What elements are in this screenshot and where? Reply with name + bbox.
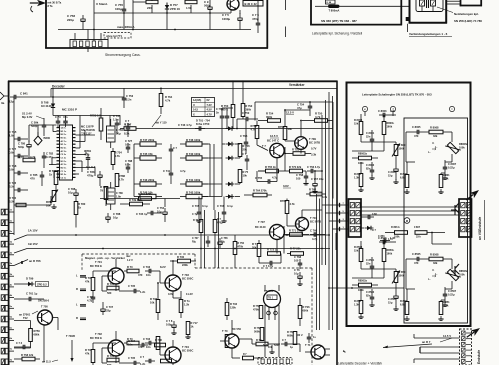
resistor R703 bottom	[225, 334, 237, 348]
svg-text:Leiterplatte kpl. Sicherung: Leiterplatte kpl. Sicherung / Netzteil	[312, 32, 362, 36]
svg-text:C 705: C 705	[128, 284, 136, 288]
resistor R8502a 100k	[352, 279, 378, 293]
svg-text:BC 167B: BC 167B	[309, 140, 320, 144]
svg-text:4.5V: 4.5V	[207, 108, 213, 112]
svg-text:14.5 V: 14.5 V	[443, 334, 451, 338]
mains plug box corner	[447, 0, 482, 6]
svg-text:4.7k: 4.7k	[119, 177, 125, 181]
svg-text:47μ: 47μ	[297, 106, 302, 110]
svg-text:U.: U.	[432, 143, 435, 145]
svg-text:R 772 1k: R 772 1k	[267, 248, 278, 252]
svg-text:R 8503: R 8503	[354, 245, 363, 249]
svg-text:33μ: 33μ	[106, 308, 111, 312]
amp stage2 wires	[259, 210, 322, 263]
label MC1307P SN76115N	[81, 125, 95, 136]
svg-text:MC 1307P: MC 1307P	[81, 125, 94, 129]
resistor R7012 vert	[85, 276, 95, 291]
svg-text:1k: 1k	[78, 205, 82, 209]
svg-text:R 706: R 706	[150, 297, 158, 301]
svg-text:M3 2s: M3 2s	[61, 138, 68, 140]
svg-text:C 703: C 703	[143, 265, 151, 269]
capacitor C743 series	[178, 123, 205, 131]
labels 560k 530k	[263, 343, 280, 347]
svg-text:C 780: C 780	[18, 142, 26, 146]
svg-text:C 788: C 788	[68, 187, 76, 191]
capacitor C8003 1.3n	[378, 109, 396, 117]
svg-text:1.8n: 1.8n	[116, 194, 122, 198]
svg-text:S1 2.4V: S1 2.4V	[22, 112, 32, 116]
resistor R716 stage wires	[160, 340, 173, 365]
svg-text:15k: 15k	[354, 121, 359, 125]
resistor R700e edge	[9, 196, 26, 207]
svg-text:6.8n: 6.8n	[9, 167, 15, 171]
label max 280mA	[117, 25, 135, 29]
svg-text:SN 258-0: SN 258-0	[38, 299, 50, 303]
diode D707	[226, 156, 241, 160]
svg-text:ohne lpl 771: ohne lpl 771	[106, 34, 122, 38]
svg-text:10k: 10k	[243, 173, 248, 177]
resistor R706 10k	[150, 297, 160, 313]
transistor T705 bottom mid	[222, 327, 241, 348]
label Endstufe vertical	[477, 350, 481, 364]
capacitor C761 1u	[14, 292, 44, 302]
svg-text:500p: 500p	[18, 145, 24, 149]
transistor T704 BC550C	[165, 345, 193, 363]
output transistor lower	[451, 264, 459, 276]
svg-text:C 780: C 780	[116, 191, 123, 195]
svg-text:1.7n: 1.7n	[388, 238, 393, 241]
svg-text:R: R	[76, 287, 78, 291]
svg-text:T 701: T 701	[95, 260, 102, 264]
svg-text:D 7: D 7	[372, 229, 376, 232]
svg-text:BC 550C: BC 550C	[182, 276, 193, 280]
resistor R in power box 220	[133, 0, 158, 30]
svg-text:C 758: C 758	[296, 173, 304, 177]
label 14.5V bottom	[440, 334, 452, 342]
svg-text:C 753: C 753	[126, 94, 134, 98]
svg-text:220μ: 220μ	[67, 18, 74, 22]
bottom right connector strip	[460, 329, 472, 365]
resistor R807 33k	[414, 226, 452, 244]
resistor R8002i 6.8k	[400, 162, 410, 193]
svg-text:680k: 680k	[34, 332, 40, 336]
svg-text:R 756: R 756	[287, 330, 294, 334]
resistor R7015 560	[107, 282, 119, 295]
wire hook at power box input	[31, 6, 33, 12]
arrow an VS-Endstufe	[464, 187, 481, 202]
svg-text:R 8008: R 8008	[430, 126, 439, 130]
label Leiterplatte Schaltregler	[362, 93, 432, 97]
resistor R771 10k	[289, 229, 309, 237]
label AN 066 TN 083-087	[321, 19, 357, 23]
resistor R 740	[180, 152, 208, 160]
svg-text:R 747 220k: R 747 220k	[140, 138, 155, 142]
svg-text:R 700: R 700	[9, 196, 17, 200]
capacitor C731 C732 pair	[216, 107, 233, 129]
svg-text:L 750: L 750	[116, 128, 123, 132]
capacitor C737 1.5n	[113, 114, 121, 134]
resistor R784 4.7k	[111, 148, 122, 170]
capacitor C785 470	[30, 171, 44, 186]
svg-text:100k: 100k	[399, 146, 405, 150]
svg-text:160k: 160k	[387, 124, 393, 128]
resistor R755 1k	[258, 165, 283, 173]
svg-text:M1 1s: M1 1s	[61, 131, 68, 133]
svg-text:C 727: C 727	[125, 139, 133, 143]
svg-text:R 754: R 754	[266, 112, 274, 116]
capacitor C756 4.7u	[307, 165, 323, 173]
svg-text:4.7k: 4.7k	[165, 98, 171, 102]
svg-text:T 700: T 700	[41, 305, 48, 309]
svg-text:C 7: C 7	[125, 119, 130, 123]
svg-text:R 764: R 764	[165, 95, 173, 99]
svg-text:8.2k: 8.2k	[9, 199, 15, 203]
capacitor L731 decoder	[63, 115, 68, 127]
resistor R 742	[180, 190, 208, 198]
svg-text:C 743 4.7μ: C 743 4.7μ	[178, 123, 192, 127]
svg-text:8.2V: 8.2V	[160, 265, 166, 269]
svg-text:R 755 1k: R 755 1k	[265, 165, 276, 169]
svg-text:T 70: T 70	[222, 329, 228, 333]
svg-text:C 7: C 7	[140, 355, 145, 359]
capacitor C8507 0.22u	[443, 287, 457, 300]
svg-text:R 764 270k: R 764 270k	[138, 192, 152, 196]
svg-text:T 800mA: T 800mA	[329, 8, 340, 12]
svg-text:4.7μ: 4.7μ	[312, 237, 318, 241]
resistor R8502i 6.8k	[400, 289, 410, 320]
svg-text:C 781: C 781	[84, 149, 92, 153]
svg-text:T 709: T 709	[309, 137, 316, 141]
preamp ch1 output wires	[157, 260, 181, 320]
svg-text:R 70: R 70	[256, 338, 262, 342]
resistor R762 amp	[306, 188, 328, 200]
fuse sub-box	[326, 0, 336, 4]
diode D709	[226, 194, 241, 198]
svg-text:32k: 32k	[433, 261, 438, 265]
voltage table	[192, 98, 215, 117]
svg-text:1k: 1k	[49, 172, 53, 176]
svg-text:R 850: R 850	[399, 270, 406, 274]
preamp02 wires	[93, 331, 130, 365]
svg-text:600k: 600k	[303, 308, 309, 312]
channel 85 left wires	[352, 257, 399, 310]
svg-text:BC 547B: BC 547B	[310, 219, 321, 223]
capacitor C706 0.1u	[217, 197, 233, 223]
resistor R786 4.7k	[115, 174, 125, 187]
svg-text:C 768: C 768	[294, 255, 302, 259]
diode by connector	[361, 226, 376, 232]
capacitor C7012 4.7u	[87, 293, 95, 303]
gnd TB104	[269, 345, 274, 353]
bottom dashed connector	[258, 358, 292, 365]
resistor R8002a 100k	[352, 152, 378, 166]
label 12.5V BC147C	[267, 134, 279, 143]
svg-text:max. 280mA: max. 280mA	[117, 25, 135, 29]
transistor T711 bottom mid	[343, 350, 345, 352]
svg-text:C 7: C 7	[282, 338, 287, 342]
middle bus right box	[361, 207, 459, 223]
svg-text:C 8501: C 8501	[366, 258, 375, 262]
label Leiterplatte kpl Sicherung/Netzteil	[312, 32, 362, 36]
resistor R773 vert	[252, 242, 261, 257]
amp wires upper	[255, 101, 333, 198]
resistor R757 600k	[287, 330, 297, 345]
svg-text:R 800: R 800	[400, 172, 407, 176]
capacitor C778 right edge	[252, 13, 260, 33]
svg-text:0.68: 0.68	[372, 213, 377, 216]
svg-text:33 k: 33 k	[416, 236, 421, 239]
capacitor C7023 10n	[143, 337, 160, 349]
capacitor C769	[294, 268, 303, 285]
svg-text:U.: U.	[432, 270, 435, 272]
svg-text:0 807: 0 807	[414, 226, 421, 229]
svg-text:520p: 520p	[31, 124, 38, 128]
svg-text:X: X	[193, 112, 195, 116]
svg-text:T 710: T 710	[310, 216, 317, 220]
dashed section divider magnet preamp	[82, 254, 312, 365]
svg-text:Decoder: Decoder	[52, 84, 66, 88]
svg-text:0.7V: 0.7V	[311, 147, 317, 151]
svg-text:10k: 10k	[288, 127, 293, 131]
svg-text:4.7k: 4.7k	[290, 202, 296, 206]
svg-text:C 8001: C 8001	[366, 131, 375, 135]
svg-text:TB 104: TB 104	[264, 289, 273, 293]
svg-text:470k: 470k	[238, 245, 244, 248]
svg-text:B600: B600	[44, 136, 51, 140]
capacitor C8503 1.3n	[378, 236, 396, 244]
svg-text:an R 766: an R 766	[29, 259, 41, 263]
svg-text:100: 100	[294, 258, 299, 262]
resistor R754 390k	[258, 111, 294, 123]
svg-text:10n: 10n	[146, 273, 151, 277]
svg-text:T 704: T 704	[182, 345, 189, 349]
regulator board box frame	[347, 83, 471, 327]
svg-text:10μ: 10μ	[157, 209, 162, 213]
svg-text:R750: R750	[34, 329, 41, 333]
coil L750	[107, 119, 124, 148]
label S1 2.4V Mp 0.3V	[22, 112, 44, 120]
labels U L plus	[428, 143, 438, 154]
svg-text:C 705: C 705	[128, 356, 136, 360]
label 1.2V divider	[126, 255, 133, 262]
svg-text:R 780: R 780	[78, 202, 86, 206]
mains inner module	[416, 0, 443, 12]
resistor R754 vert right	[238, 170, 248, 185]
trimmer R8006a 100k	[445, 140, 468, 156]
svg-text:1A 15V: 1A 15V	[28, 229, 38, 233]
svg-text:C 59k: C 59k	[31, 121, 39, 125]
label mit Y110	[152, 115, 167, 127]
capacitor C5xx 520p	[31, 118, 46, 136]
svg-text:C 741: C 741	[163, 169, 171, 173]
capacitor C8005 470	[412, 125, 423, 138]
terminal circle l	[449, 106, 454, 111]
svg-text:R 770 22k: R 770 22k	[289, 165, 302, 169]
svg-text:C 755: C 755	[255, 176, 263, 180]
svg-text:1.5k: 1.5k	[186, 6, 192, 10]
zener D799 ZPD8.2	[14, 277, 49, 287]
svg-text:R 702: R 702	[230, 302, 238, 306]
svg-text:100: 100	[296, 176, 301, 180]
svg-text:M2 1s: M2 1s	[61, 167, 68, 169]
capacitor C734	[136, 211, 162, 216]
labels U L plus	[428, 270, 438, 281]
svg-text:1.3n: 1.3n	[390, 109, 396, 113]
svg-text:470: 470	[414, 261, 419, 265]
connector X1 left pins	[340, 203, 349, 231]
power box vertical drops	[124, 0, 258, 19]
trimmer R8506a 100k	[445, 267, 468, 283]
input R2 marker	[76, 287, 86, 291]
svg-text:Mp 0.3V: Mp 0.3V	[22, 115, 33, 119]
svg-text:R850L: R850L	[387, 248, 395, 252]
svg-text:R/μ: R/μ	[192, 240, 196, 243]
svg-text:R 70: R 70	[127, 265, 133, 269]
capacitor C703 mid	[128, 338, 166, 347]
resistor R 746	[180, 138, 208, 146]
svg-text:C2 1s: C2 1s	[61, 177, 67, 179]
resistor R806b 100k	[385, 226, 408, 239]
capacitor C775 1000u right	[222, 10, 242, 30]
wire signal bus y198	[100, 198, 120, 200]
resistor R8501i 1.3k	[438, 300, 450, 320]
capacitor C753 2.2n left	[122, 88, 134, 108]
resistor R7022 vert	[85, 348, 95, 363]
svg-text:an 11.5: an 11.5	[42, 360, 51, 364]
capacitor C8502 82n	[366, 290, 375, 303]
svg-text:MC 1310 P: MC 1310 P	[62, 108, 77, 112]
resistor R750 390k	[221, 104, 235, 129]
label Decoder	[52, 84, 66, 88]
svg-text:C 761 1μ: C 761 1μ	[26, 292, 38, 296]
channel 80 inner wires	[406, 132, 452, 179]
svg-text:BC 147 C: BC 147 C	[267, 139, 279, 143]
label D701-704 8xSe	[196, 119, 210, 126]
svg-text:12.5 V: 12.5 V	[286, 111, 294, 115]
capacitor C781 4.7u	[84, 149, 92, 170]
svg-text:8×Se C750: 8×Se C750	[196, 122, 210, 126]
svg-text:R 7n: R 7n	[184, 299, 190, 303]
svg-text:470k: 470k	[253, 307, 259, 311]
svg-text:R 705: R 705	[107, 282, 115, 286]
label Verbindungsleitungen 1-6	[406, 17, 452, 36]
mains box frame	[409, 0, 448, 24]
svg-text:C 754: C 754	[297, 103, 305, 107]
capacitor C7013 10n	[143, 265, 160, 277]
svg-text:C 734 1μ: C 734 1μ	[136, 212, 148, 216]
terminal circle e	[362, 106, 367, 111]
input arrow into power box	[30, 0, 46, 6]
svg-text:C 727: C 727	[9, 147, 17, 151]
svg-text:15k: 15k	[354, 248, 359, 252]
resistor R700 220k	[170, 255, 196, 267]
wire bus max 280mA	[58, 29, 251, 31]
svg-text:R8506a: R8506a	[459, 269, 469, 273]
label an 27061 T02	[19, 311, 38, 320]
svg-text:M2 1s: M2 1s	[61, 134, 68, 136]
svg-text:0.1μ: 0.1μ	[227, 204, 233, 208]
resistor R 743	[134, 178, 162, 186]
svg-text:390k: 390k	[246, 108, 252, 111]
svg-text:B 30 C 32: B 30 C 32	[245, 2, 258, 6]
stereo lamp diamond	[34, 132, 51, 145]
svg-text:10n: 10n	[146, 345, 151, 349]
svg-text:0.1μ: 0.1μ	[202, 204, 208, 208]
svg-text:R782: R782	[46, 200, 53, 204]
input L marker	[76, 303, 86, 307]
resistor R8503 15k	[354, 241, 363, 269]
svg-text:SN 76115N: SN 76115N	[81, 128, 95, 132]
capacitor C764 4.7u stage2	[263, 261, 276, 268]
svg-text:10μ: 10μ	[294, 271, 299, 275]
main board box frame	[8, 81, 338, 365]
resistor R 747	[134, 138, 162, 146]
TB104 pin wires	[265, 285, 279, 357]
svg-text:Magnet - pick - up - Verstärke: Magnet - pick - up - Verstärker	[85, 256, 126, 260]
svg-text:R 853: R 853	[354, 299, 361, 303]
antenna input 3a	[0, 92, 9, 105]
resistor mid R706b	[213, 210, 223, 268]
resistor R774 22k	[287, 247, 304, 256]
svg-text:R 77 22k: R 77 22k	[290, 247, 301, 251]
svg-text:R 740 100k: R 740 100k	[186, 152, 201, 156]
resistor R8001i 1.3k	[438, 173, 450, 193]
wires into connector X1	[322, 205, 340, 250]
capacitor C749	[237, 111, 258, 129]
svg-text:Leiterplatte Decoder + Verstä: Leiterplatte Decoder + Verstärk	[338, 362, 382, 365]
svg-text:470μ: 470μ	[217, 221, 223, 224]
svg-text:220: 220	[147, 6, 152, 10]
capacitor C742 top matrix	[169, 144, 178, 158]
svg-text:SN 066 (WT) TN 083 - 087: SN 066 (WT) TN 083 - 087	[321, 19, 357, 23]
IC fan-out wires	[49, 150, 95, 178]
svg-text:TB 1: TB 1	[268, 298, 274, 300]
resistor R756b 470k	[233, 235, 244, 268]
diode D706	[222, 142, 240, 146]
svg-text:C 7 8: C 7 8	[166, 319, 173, 323]
resistor R7020 470	[127, 337, 143, 349]
svg-text:C 7S5: C 7S5	[9, 130, 17, 134]
svg-text:0.8n: 0.8n	[9, 150, 15, 154]
svg-text:560k: 560k	[254, 329, 260, 333]
svg-text:3a: 3a	[1, 101, 5, 105]
wire stub below power box	[87, 48, 89, 52]
svg-text:4.7k: 4.7k	[30, 155, 36, 159]
svg-text:10k: 10k	[150, 300, 155, 304]
svg-text:C 788: C 788	[125, 159, 133, 163]
svg-text:C 7S6: C 7S6	[240, 134, 248, 138]
svg-text:100k: 100k	[399, 273, 405, 277]
svg-text:100k: 100k	[394, 236, 400, 239]
svg-text:R 745 15k: R 745 15k	[140, 152, 153, 156]
svg-text:ZPD 16: ZPD 16	[170, 7, 180, 11]
svg-text:M1 1s: M1 1s	[61, 144, 68, 146]
wire edge C752	[242, 152, 249, 170]
svg-text:15μ: 15μ	[388, 300, 393, 304]
fuse Si 800mA	[315, 5, 409, 13]
svg-text:C 8502: C 8502	[366, 290, 375, 294]
svg-text:AC 2s: AC 2s	[61, 150, 68, 153]
svg-text:R 742 100k: R 742 100k	[186, 190, 201, 194]
svg-text:BC 550 E: BC 550 E	[90, 264, 102, 268]
svg-text:C 8504: C 8504	[388, 297, 397, 301]
transistor T712 bottom	[305, 343, 330, 359]
svg-text:560: 560	[107, 291, 112, 295]
svg-text:14 7a: 14 7a	[61, 127, 67, 130]
label Magnet-pick-up Verstaerker	[85, 256, 126, 260]
svg-text:D 701 - 704: D 701 - 704	[196, 119, 210, 123]
svg-text:470μ: 470μ	[87, 173, 94, 177]
